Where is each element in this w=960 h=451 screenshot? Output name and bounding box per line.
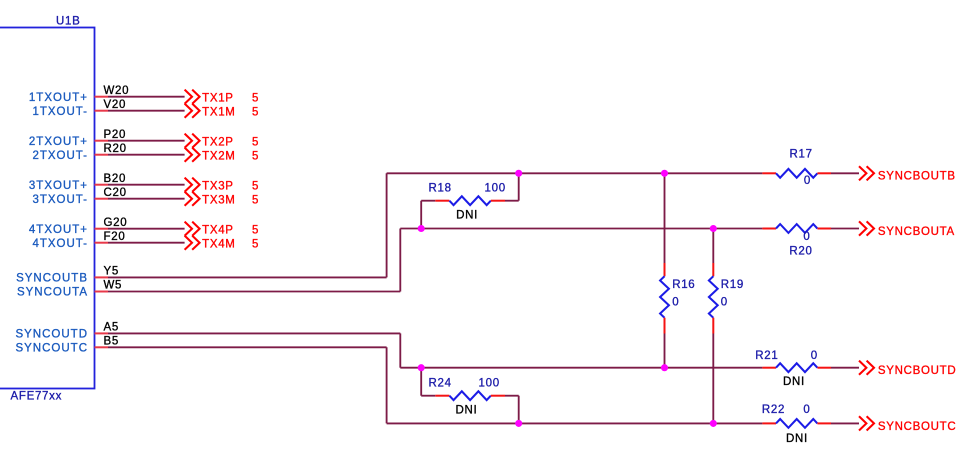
svg-text:DNI: DNI xyxy=(783,376,805,388)
svg-text:R20: R20 xyxy=(789,245,812,257)
svg-text:SYNCBOUTA: SYNCBOUTA xyxy=(878,226,955,238)
svg-text:0: 0 xyxy=(803,404,810,416)
svg-text:1TXOUT+: 1TXOUT+ xyxy=(29,92,88,104)
svg-text:5: 5 xyxy=(252,195,259,207)
svg-text:G20: G20 xyxy=(104,217,128,229)
svg-text:TX2P: TX2P xyxy=(202,137,234,149)
svg-text:0: 0 xyxy=(811,350,818,362)
svg-text:V20: V20 xyxy=(104,99,127,111)
svg-text:5: 5 xyxy=(252,225,259,237)
svg-text:C20: C20 xyxy=(104,187,127,199)
svg-text:SYNCOUTA: SYNCOUTA xyxy=(17,287,88,299)
svg-text:0: 0 xyxy=(804,175,811,187)
svg-text:4TXOUT-: 4TXOUT- xyxy=(32,238,88,250)
svg-text:Y5: Y5 xyxy=(104,266,119,278)
svg-text:1TXOUT-: 1TXOUT- xyxy=(32,106,88,118)
svg-text:R16: R16 xyxy=(672,279,695,291)
svg-text:5: 5 xyxy=(252,137,259,149)
svg-text:R21: R21 xyxy=(755,350,778,362)
svg-text:0: 0 xyxy=(803,231,810,243)
svg-text:SYNCOUTD: SYNCOUTD xyxy=(15,329,88,341)
svg-text:DNI: DNI xyxy=(456,210,478,222)
svg-text:3TXOUT+: 3TXOUT+ xyxy=(29,180,88,192)
svg-text:TX4M: TX4M xyxy=(202,239,235,251)
svg-text:TX4P: TX4P xyxy=(202,225,234,237)
svg-text:TX3M: TX3M xyxy=(202,195,235,207)
svg-text:AFE77xx: AFE77xx xyxy=(11,391,63,403)
svg-text:5: 5 xyxy=(252,239,259,251)
svg-text:B5: B5 xyxy=(104,336,119,348)
svg-text:5: 5 xyxy=(252,151,259,163)
svg-text:5: 5 xyxy=(252,107,259,119)
svg-text:R17: R17 xyxy=(790,148,813,160)
svg-text:B20: B20 xyxy=(104,173,127,185)
svg-text:2TXOUT-: 2TXOUT- xyxy=(32,150,88,162)
svg-text:TX1M: TX1M xyxy=(202,107,235,119)
svg-text:TX3P: TX3P xyxy=(202,181,234,193)
svg-text:DNI: DNI xyxy=(786,433,808,445)
svg-text:R22: R22 xyxy=(762,404,785,416)
svg-text:100: 100 xyxy=(479,377,500,389)
svg-text:SYNCOUTC: SYNCOUTC xyxy=(15,343,88,355)
svg-text:TX2M: TX2M xyxy=(202,151,235,163)
svg-text:R18: R18 xyxy=(429,183,452,195)
svg-text:SYNCBOUTD: SYNCBOUTD xyxy=(878,365,957,377)
svg-text:0: 0 xyxy=(672,296,679,308)
svg-text:F20: F20 xyxy=(104,231,126,243)
svg-text:TX1P: TX1P xyxy=(202,93,234,105)
svg-text:100: 100 xyxy=(485,183,506,195)
svg-text:5: 5 xyxy=(252,93,259,105)
svg-text:R19: R19 xyxy=(721,279,744,291)
svg-text:W20: W20 xyxy=(104,85,130,97)
svg-text:SYNCBOUTC: SYNCBOUTC xyxy=(878,421,957,433)
svg-text:2TXOUT+: 2TXOUT+ xyxy=(29,136,88,148)
svg-text:4TXOUT+: 4TXOUT+ xyxy=(29,224,88,236)
svg-text:SYNCOUTB: SYNCOUTB xyxy=(16,273,88,285)
svg-text:W5: W5 xyxy=(104,280,123,292)
svg-text:0: 0 xyxy=(721,296,728,308)
svg-text:5: 5 xyxy=(252,181,259,193)
svg-text:SYNCBOUTB: SYNCBOUTB xyxy=(878,171,956,183)
svg-text:R20: R20 xyxy=(104,143,127,155)
svg-text:A5: A5 xyxy=(104,322,119,334)
svg-text:3TXOUT-: 3TXOUT- xyxy=(32,194,88,206)
svg-text:R24: R24 xyxy=(429,377,452,389)
svg-text:U1B: U1B xyxy=(56,16,80,28)
svg-text:P20: P20 xyxy=(104,129,127,141)
svg-text:DNI: DNI xyxy=(456,405,478,417)
